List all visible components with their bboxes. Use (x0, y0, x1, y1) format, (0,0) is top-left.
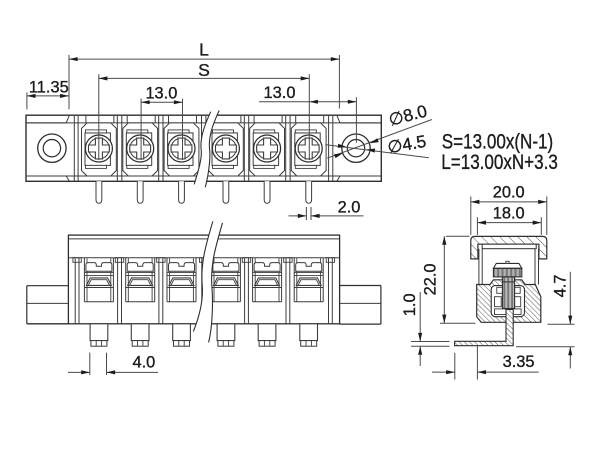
svg-text:4.0: 4.0 (133, 354, 156, 372)
svg-text:L=13.00xN+3.3: L=13.00xN+3.3 (441, 151, 558, 174)
svg-text:18.0: 18.0 (493, 205, 525, 223)
svg-text:S: S (198, 60, 210, 80)
svg-text:20.0: 20.0 (493, 184, 525, 202)
svg-text:L: L (199, 39, 209, 59)
svg-text:2.0: 2.0 (338, 198, 361, 216)
svg-text:1.0: 1.0 (401, 293, 419, 316)
svg-text:4.7: 4.7 (551, 275, 569, 298)
svg-text:13.0: 13.0 (264, 84, 296, 102)
svg-text:11.35: 11.35 (29, 79, 69, 97)
svg-text:3.35: 3.35 (503, 353, 535, 371)
svg-text:13.0: 13.0 (145, 85, 177, 103)
svg-text:22.0: 22.0 (422, 263, 440, 295)
